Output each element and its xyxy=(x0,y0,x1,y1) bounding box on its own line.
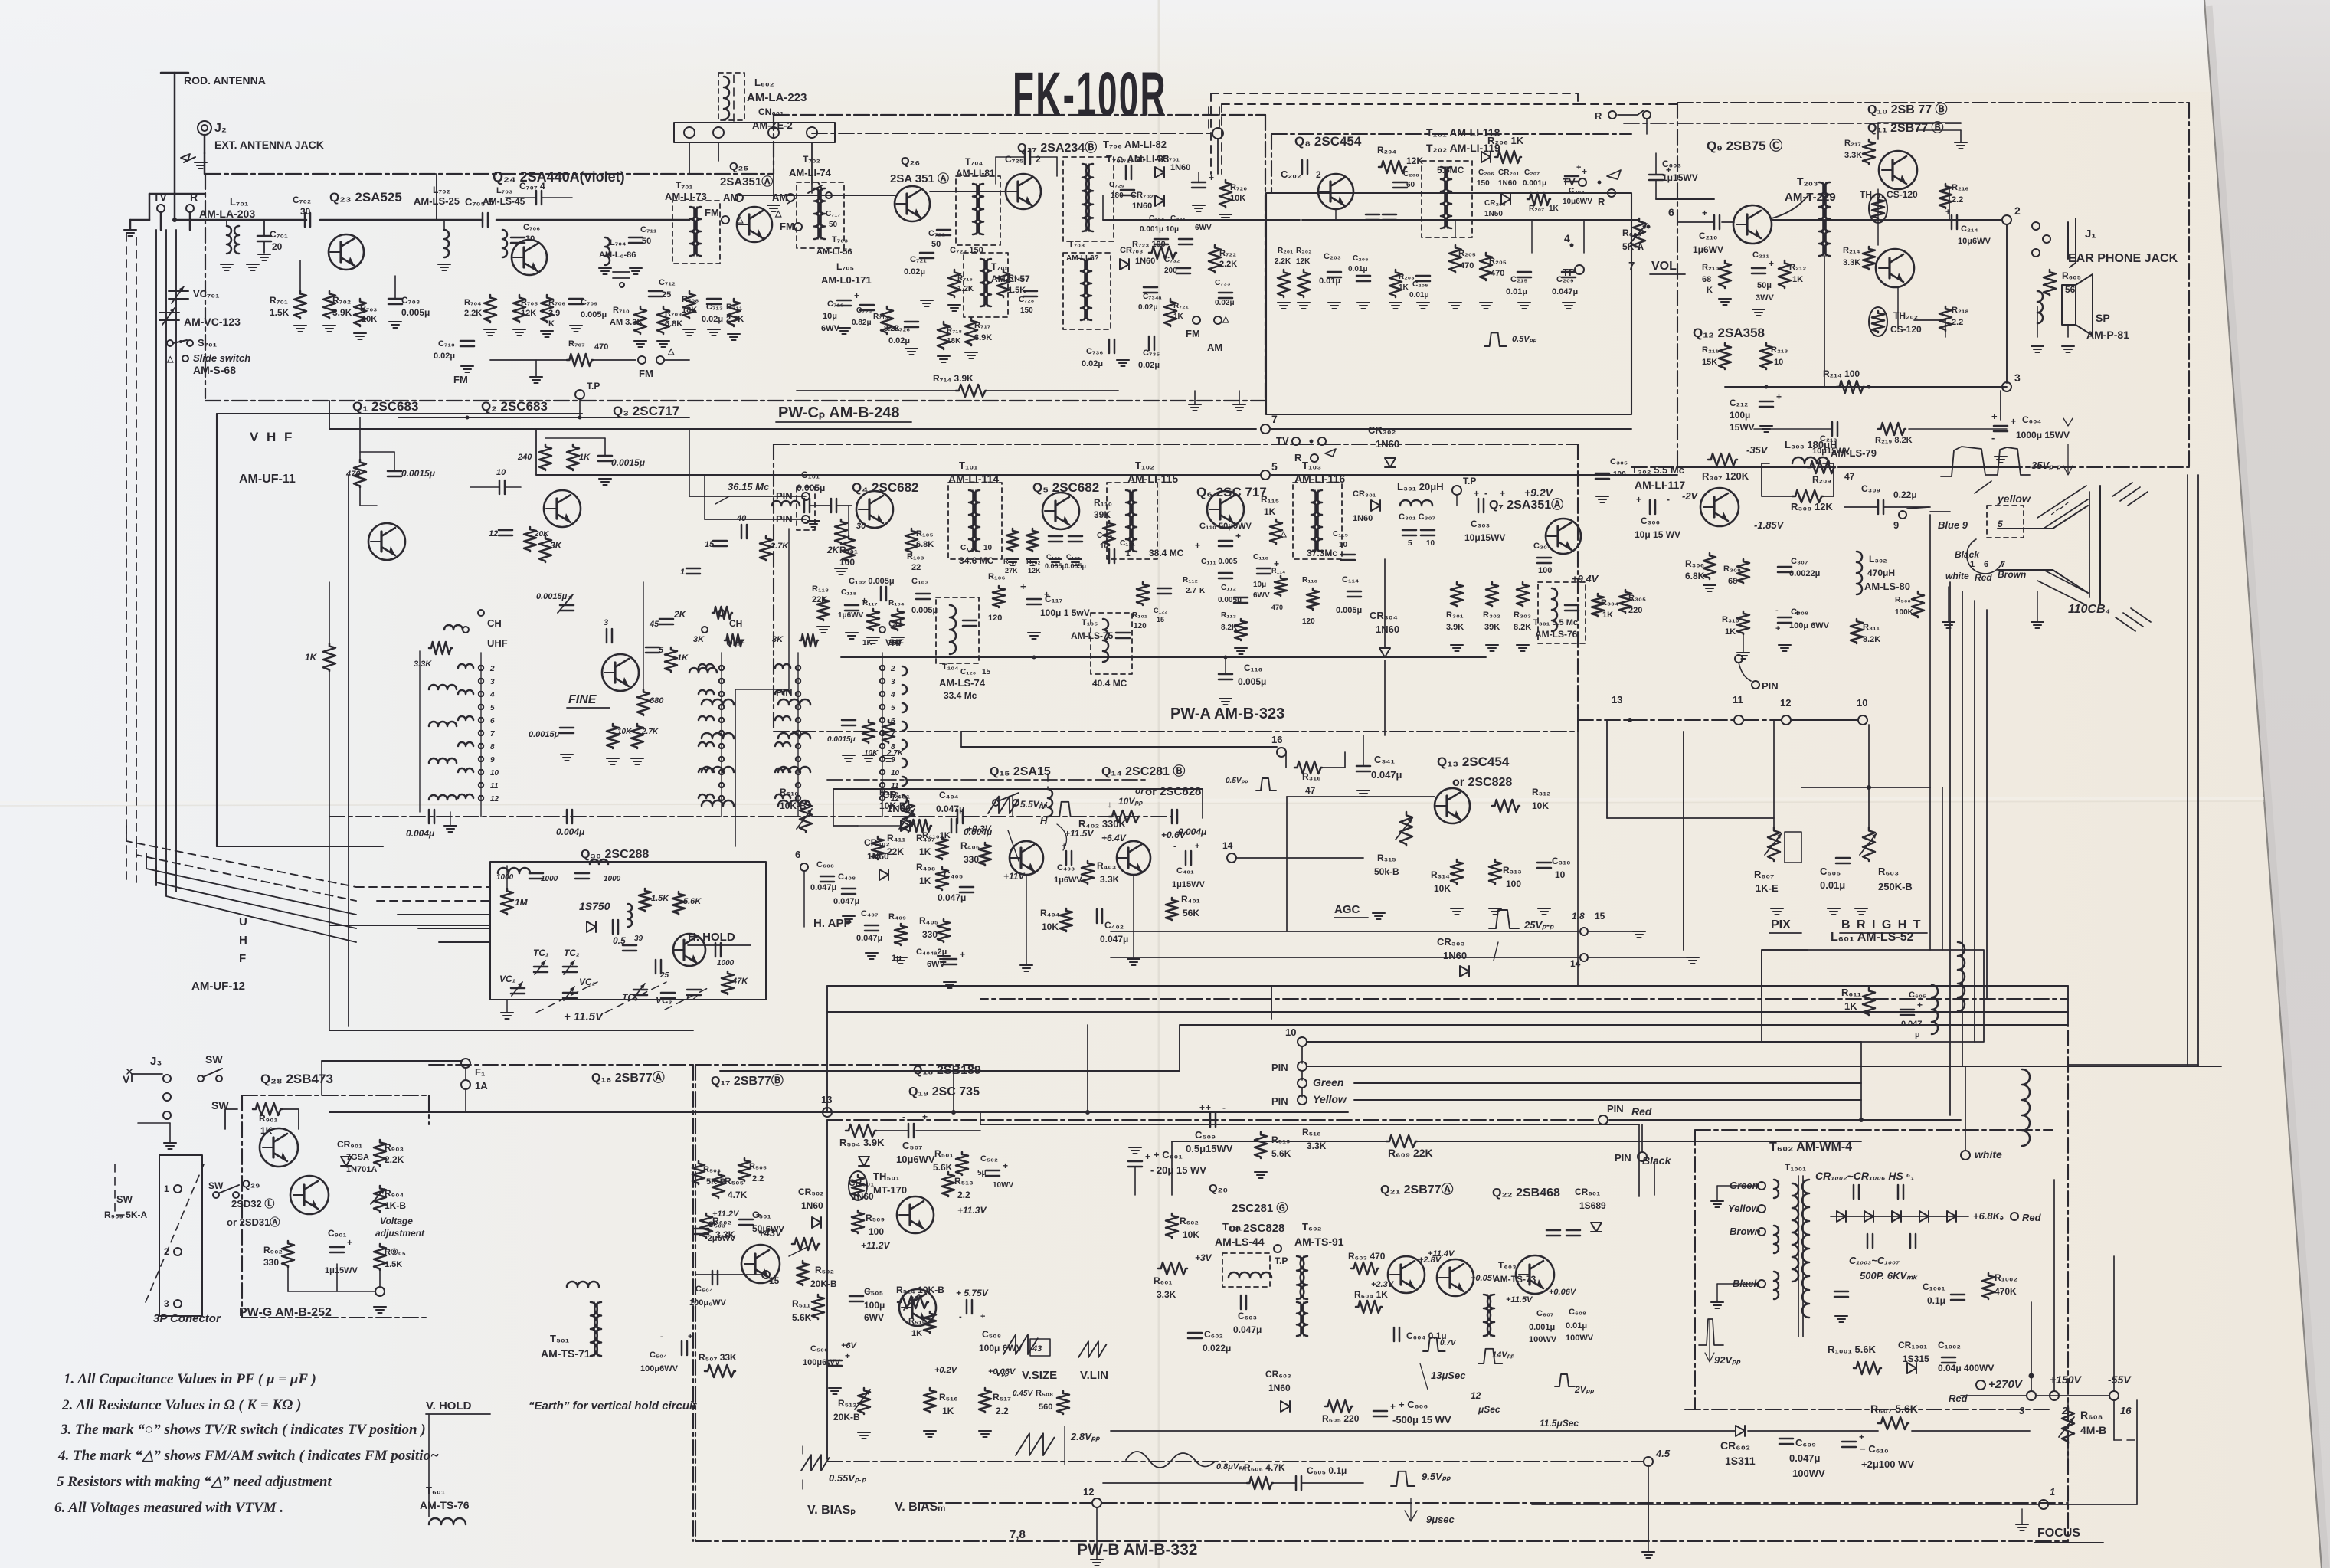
svg-text:5: 5 xyxy=(891,704,895,712)
svg-text:T.P: T.P xyxy=(1275,1255,1288,1266)
svg-text:0.0022μ: 0.0022μ xyxy=(1789,569,1820,578)
svg-text:VC₁: VC₁ xyxy=(499,974,515,984)
main wire FM front end xyxy=(175,219,306,221)
svg-text:3: 3 xyxy=(164,1298,169,1309)
svg-text:11.5μSec: 11.5μSec xyxy=(1540,1418,1579,1429)
capacitor C722 xyxy=(937,230,951,235)
svg-text:16: 16 xyxy=(1271,734,1282,745)
svg-text:T₆₀₂: T₆₀₂ xyxy=(1302,1221,1322,1232)
svg-text:0.047μ: 0.047μ xyxy=(936,804,964,814)
svg-text:L₃₀₁ 20μH: L₃₀₁ 20μH xyxy=(1397,481,1444,493)
svg-text:0.01μ: 0.01μ xyxy=(1348,265,1368,273)
svg-text:0.005μ: 0.005μ xyxy=(1336,606,1362,615)
resistor R310 xyxy=(1737,611,1749,634)
ground J2 xyxy=(195,162,207,169)
resistor R511 xyxy=(812,1295,824,1319)
svg-text:15: 15 xyxy=(1157,616,1164,624)
svg-text:R₁₁₅: R₁₁₅ xyxy=(1261,494,1279,505)
svg-text:C₃₀₄: C₃₀₄ xyxy=(1533,542,1551,551)
transistor Q8 xyxy=(1318,174,1353,209)
svg-text:AM: AM xyxy=(772,191,787,203)
wire bus nest A xyxy=(1271,985,2068,987)
svg-text:C₁₁₄: C₁₁₄ xyxy=(1342,575,1359,584)
resistor R308 xyxy=(1792,490,1823,502)
svg-text:R₂₁₂: R₂₁₂ xyxy=(1789,263,1806,272)
node 3 xyxy=(2002,382,2011,391)
svg-text:20: 20 xyxy=(272,241,283,252)
3P connector box xyxy=(159,1155,202,1316)
wire Q13 bias rail xyxy=(1287,796,1435,797)
node R TP top xyxy=(1608,111,1616,119)
svg-text:1μ15WV: 1μ15WV xyxy=(1662,172,1698,183)
wire right of sync down xyxy=(1202,789,1203,818)
svg-text:15K: 15K xyxy=(1702,358,1717,367)
svg-text:C₇₃₄ₐ: C₇₃₄ₐ xyxy=(1143,293,1162,301)
transistor Q23 xyxy=(329,234,364,270)
resistor 470 cap 0.0015 xyxy=(354,460,366,487)
svg-text:12: 12 xyxy=(1083,1486,1094,1498)
svg-text:C₇₀₉: C₇₀₉ xyxy=(581,298,597,307)
earphone jack xyxy=(2032,222,2040,230)
svg-text:40.4 MC: 40.4 MC xyxy=(1092,678,1127,689)
Q3 collector caps xyxy=(842,720,856,725)
svg-text:1K-E: 1K-E xyxy=(1756,882,1779,894)
svg-text:Red: Red xyxy=(2022,1212,2042,1223)
svg-text:0.0015μ: 0.0015μ xyxy=(536,592,568,601)
cap C505 xyxy=(849,1296,863,1301)
svg-text:R₆₁₁: R₆₁₁ xyxy=(1841,987,1861,998)
svg-text:R₆₀₈: R₆₀₈ xyxy=(2080,1409,2103,1421)
svg-text:100μ6WV: 100μ6WV xyxy=(640,1364,679,1373)
resistor R316 xyxy=(1294,761,1322,774)
svg-text:U: U xyxy=(239,915,247,928)
svg-text:C₃₀₁ C₃₀₇: C₃₀₁ C₃₀₇ xyxy=(1399,512,1435,522)
svg-text:100: 100 xyxy=(839,557,855,568)
wire IF block to sync long verticals xyxy=(953,1065,954,1112)
svg-text:470K: 470K xyxy=(1995,1286,2017,1297)
svg-text:0.02μ: 0.02μ xyxy=(1138,361,1160,370)
svg-text:C₂₁₂: C₂₁₂ xyxy=(1730,398,1748,408)
svg-text:Q₁₇ 2SB77Ⓑ: Q₁₇ 2SB77Ⓑ xyxy=(711,1073,784,1088)
svg-text:+: + xyxy=(1062,842,1066,851)
svg-text:35Vₚ-ₚ: 35Vₚ-ₚ xyxy=(2031,460,2061,471)
svg-text:L₇₀₁: L₇₀₁ xyxy=(230,196,248,208)
node 16 wire xyxy=(1277,748,1286,757)
svg-text:C₆₀₈: C₆₀₈ xyxy=(816,860,834,869)
dashed UHF link xyxy=(536,982,597,1013)
resistor R306 xyxy=(1703,553,1716,579)
wire nest right verticals xyxy=(1860,1042,1862,1120)
svg-text:T.P: T.P xyxy=(1463,476,1476,486)
svg-text:T₁₀₅: T₁₀₅ xyxy=(1082,618,1098,627)
T301 5.5Mc xyxy=(1538,582,1586,643)
svg-text:10μ15WV: 10μ15WV xyxy=(1464,532,1505,543)
svg-text:AM-LI-115: AM-LI-115 xyxy=(1127,473,1178,485)
svg-text:1K: 1K xyxy=(1399,283,1409,292)
T105 AM-LS-75 xyxy=(1091,613,1132,674)
svg-text:R₅₀₃: R₅₀₃ xyxy=(703,1165,721,1174)
svg-text:R₁₀₆: R₁₀₆ xyxy=(988,572,1005,581)
svg-text:8.2K: 8.2K xyxy=(1514,623,1531,632)
resistor R604 xyxy=(1356,1301,1382,1313)
svg-text:2.2: 2.2 xyxy=(1952,195,1963,205)
svg-text:9: 9 xyxy=(1893,519,1899,531)
thermistor TH201 xyxy=(1869,194,1887,223)
svg-text:-55V: -55V xyxy=(2108,1373,2132,1386)
cap C803 xyxy=(1649,175,1663,180)
transistor Q24 xyxy=(512,240,547,275)
svg-text:0.01μ: 0.01μ xyxy=(1319,277,1340,286)
svg-text:R₅₀₈: R₅₀₈ xyxy=(1036,1389,1053,1398)
svg-text:8.2K: 8.2K xyxy=(1863,635,1880,644)
block border VHF tuner xyxy=(216,414,218,846)
svg-text:+11.5V: +11.5V xyxy=(1506,1295,1533,1304)
cap 0.0015 gnd 10K 2.7K xyxy=(560,728,574,733)
coil L802 bar antenna xyxy=(718,73,744,120)
thermistor TH202 xyxy=(1869,307,1887,336)
svg-text:0.004μ: 0.004μ xyxy=(556,827,585,837)
svg-text:560: 560 xyxy=(1039,1403,1052,1412)
svg-text:L₇₀₂: L₇₀₂ xyxy=(433,185,450,195)
svg-text:V H F: V H F xyxy=(250,430,294,444)
svg-text:− C₆₁₀: − C₆₁₀ xyxy=(1860,1443,1889,1455)
svg-text:R₉₀₁: R₉₀₁ xyxy=(259,1113,277,1124)
svg-text:1N60: 1N60 xyxy=(1443,950,1467,961)
svg-text:1K: 1K xyxy=(919,876,931,886)
svg-text:L₇₀₄: L₇₀₄ xyxy=(610,238,626,247)
svg-text:0.001μ: 0.001μ xyxy=(1529,1323,1555,1332)
svg-text:0.02μ: 0.02μ xyxy=(1215,299,1235,307)
resistor R710 xyxy=(634,306,646,334)
svg-text:R₇₂₀: R₇₂₀ xyxy=(1230,183,1247,192)
svg-text:Q₁₀ 2SB 77 Ⓑ: Q₁₀ 2SB 77 Ⓑ xyxy=(1867,102,1948,116)
svg-text:+11V: +11V xyxy=(1003,871,1025,882)
svg-text:L₇₀₅: L₇₀₅ xyxy=(836,261,854,272)
svg-text:-500μ 15 WV: -500μ 15 WV xyxy=(1392,1414,1451,1426)
resistor R902 xyxy=(282,1241,294,1267)
svg-text:R₆₀₉: R₆₀₉ xyxy=(1622,228,1641,238)
transistor Q10 xyxy=(1879,151,1917,189)
svg-text:K: K xyxy=(1199,587,1206,595)
svg-text:C₃₄₁: C₃₄₁ xyxy=(1374,754,1395,765)
svg-text:+0.06V: +0.06V xyxy=(1549,1288,1577,1297)
svg-text:FK-100R: FK-100R xyxy=(1013,60,1167,129)
svg-text:330: 330 xyxy=(922,929,938,940)
svg-text:C₅₀₄: C₅₀₄ xyxy=(650,1350,667,1360)
svg-text:R₅₁₁: R₅₁₁ xyxy=(792,1298,810,1309)
block border audio chain xyxy=(1677,103,1678,467)
svg-text:2.7K: 2.7K xyxy=(886,749,904,758)
svg-text:14: 14 xyxy=(1570,958,1581,969)
svg-text:R₂₁₉ 8.2K: R₂₁₉ 8.2K xyxy=(1875,436,1913,445)
svg-text:CR₂₀₃: CR₂₀₃ xyxy=(1484,199,1506,208)
svg-text:38.4 MC: 38.4 MC xyxy=(1149,548,1184,558)
diode CR301 xyxy=(1371,500,1380,511)
svg-text:1S750: 1S750 xyxy=(579,900,610,912)
cap C504 xyxy=(682,1341,687,1355)
svg-text:1N60: 1N60 xyxy=(1498,179,1517,188)
svg-text:R₆₁₀: R₆₁₀ xyxy=(780,787,799,797)
svg-text:4: 4 xyxy=(489,691,495,699)
svg-text:5: 5 xyxy=(490,704,495,712)
svg-text:R₅₀₂: R₅₀₂ xyxy=(815,1265,834,1275)
svg-text:Q₃₀ 2SC288: Q₃₀ 2SC288 xyxy=(581,848,649,861)
svg-text:PW-Cₚ AM-B-248: PW-Cₚ AM-B-248 xyxy=(778,404,900,421)
inductor ladder col1 xyxy=(429,685,457,689)
svg-text:R₃₀₄: R₃₀₄ xyxy=(1601,598,1618,607)
resistor 680 xyxy=(637,689,650,715)
transistor Q21 xyxy=(1437,1259,1474,1296)
svg-text:100μ 1 5wV: 100μ 1 5wV xyxy=(1040,607,1090,618)
wire top jog to L802 xyxy=(436,174,437,220)
block border sound IF xyxy=(1266,193,1631,414)
thermistor TH501 xyxy=(849,1171,867,1200)
svg-text:10Vₚₚ: 10Vₚₚ xyxy=(1118,796,1143,807)
svg-text:R₇₁₃: R₇₁₃ xyxy=(873,313,888,321)
svg-text:1μ15WV: 1μ15WV xyxy=(1172,880,1205,889)
resistor R719 xyxy=(997,270,1010,297)
svg-text:-: - xyxy=(1775,606,1779,615)
svg-text:CR₅₀₂: CR₅₀₂ xyxy=(798,1187,824,1197)
svg-text:H: H xyxy=(1040,815,1048,827)
svg-text:C₇₀₆: C₇₀₆ xyxy=(523,223,540,232)
svg-text:C₂₀₈: C₂₀₈ xyxy=(1569,187,1585,195)
svg-text:C₅₀₅: C₅₀₅ xyxy=(1820,866,1841,877)
svg-text:0.047μ: 0.047μ xyxy=(1100,934,1128,944)
svg-text:1.2K: 1.2K xyxy=(957,285,974,293)
wire 13 bus xyxy=(383,1111,1348,1113)
svg-text:+: + xyxy=(1859,1432,1864,1442)
svg-text:150: 150 xyxy=(1020,306,1033,315)
svg-text:C₁₀₀₃~C₁₀₀₇: C₁₀₀₃~C₁₀₀₇ xyxy=(1849,1255,1900,1266)
svg-text:+: + xyxy=(922,1111,928,1122)
svg-text:C₃₁₀: C₃₁₀ xyxy=(1552,856,1571,866)
resistor R517 xyxy=(979,1388,991,1413)
svg-text:12K: 12K xyxy=(521,309,536,318)
svg-text:C₇₁₂: C₇₁₂ xyxy=(659,278,676,287)
svg-text:+9.4V: +9.4V xyxy=(1572,573,1599,584)
svg-text:AM-LI-56: AM-LI-56 xyxy=(816,247,852,257)
wire 7 bus xyxy=(329,428,1256,430)
svg-text:12: 12 xyxy=(490,795,499,804)
resistor R204 xyxy=(1379,161,1406,173)
svg-text:0.01μ: 0.01μ xyxy=(1409,291,1429,300)
svg-text:R₂₁₁: R₂₁₁ xyxy=(1702,345,1719,355)
svg-text:1000: 1000 xyxy=(717,959,735,967)
svg-text:SW: SW xyxy=(208,1180,224,1191)
svg-text:+: + xyxy=(1991,411,1998,422)
svg-text:330: 330 xyxy=(964,854,979,865)
cap C210 xyxy=(1714,215,1720,229)
resistor R309 xyxy=(1737,559,1749,584)
rod antenna xyxy=(174,73,176,220)
svg-text:Q₂₆: Q₂₆ xyxy=(901,155,920,168)
waveform 25Vpp xyxy=(1489,910,1519,928)
svg-text:3.3K: 3.3K xyxy=(1157,1289,1176,1300)
svg-text:240: 240 xyxy=(517,453,532,462)
svg-text:8: 8 xyxy=(490,743,495,751)
svg-text:0.005μ: 0.005μ xyxy=(911,606,938,615)
svg-text:470: 470 xyxy=(1271,604,1283,611)
svg-text:+: + xyxy=(1582,166,1587,177)
wire horizontal y1068 right xyxy=(1607,817,1774,819)
svg-text:C₁₀₅: C₁₀₅ xyxy=(960,544,977,552)
volume pot R809 xyxy=(1633,218,1645,249)
svg-text:+6V: +6V xyxy=(841,1341,858,1350)
svg-text:1: 1 xyxy=(680,568,685,577)
svg-text:9: 9 xyxy=(490,756,495,764)
svg-text:+: + xyxy=(1576,163,1581,172)
svg-text:13: 13 xyxy=(1612,694,1622,705)
cap C309 xyxy=(1878,500,1883,514)
svg-text:1K: 1K xyxy=(1264,506,1276,517)
svg-text:0.005μ: 0.005μ xyxy=(581,310,607,319)
svg-text:R₇₁₉: R₇₁₉ xyxy=(1008,273,1025,283)
svg-text:AM-LS-80: AM-LS-80 xyxy=(1864,581,1910,592)
cap C503 xyxy=(695,1229,708,1234)
svg-text:PIN: PIN xyxy=(1762,680,1779,692)
svg-text:4.7K: 4.7K xyxy=(728,1190,748,1200)
svg-text:7: 7 xyxy=(1271,413,1278,425)
svg-text:CR₃₀₃: CR₃₀₃ xyxy=(1437,936,1465,948)
svg-text:15: 15 xyxy=(1595,911,1605,921)
svg-text:EAR PHONE JACK: EAR PHONE JACK xyxy=(2068,252,2178,265)
svg-text:Yellow: Yellow xyxy=(1728,1203,1760,1214)
svg-text:1.5K: 1.5K xyxy=(270,307,290,318)
waveform 0.5Vpp near Q7 xyxy=(1484,332,1507,346)
transistor Q30 xyxy=(673,934,705,966)
svg-text:0.005μ: 0.005μ xyxy=(1238,676,1266,687)
resistor R805 xyxy=(2044,270,2056,296)
svg-text:AM 3.3K: AM 3.3K xyxy=(610,318,643,327)
svg-text:C₁₀₁: C₁₀₁ xyxy=(801,470,820,480)
cap C603 xyxy=(1241,1295,1246,1309)
+270V xyxy=(1976,1380,1985,1390)
svg-text:PIN: PIN xyxy=(1607,1103,1624,1115)
svg-text:6WV: 6WV xyxy=(821,324,840,333)
svg-text:0.047μ: 0.047μ xyxy=(856,934,882,943)
svg-text:C₆₀₉: C₆₀₉ xyxy=(1795,1437,1816,1449)
svg-text:1M: 1M xyxy=(515,897,529,908)
svg-text:FM: FM xyxy=(453,374,468,385)
svg-text:+270V: +270V xyxy=(1988,1378,2024,1391)
svg-text:0.01μ: 0.01μ xyxy=(1820,879,1845,891)
svg-text:7,8: 7,8 xyxy=(1010,1528,1026,1541)
svg-text:27K: 27K xyxy=(1005,567,1018,574)
svg-text:10: 10 xyxy=(490,769,499,777)
svg-text:Q₈ 2SC454: Q₈ 2SC454 xyxy=(1294,134,1362,149)
svg-text:H. APP: H. APP xyxy=(813,917,851,930)
wire x2520 to L801 xyxy=(1942,787,1943,950)
svg-text:14: 14 xyxy=(1222,840,1233,851)
grounds sound IF xyxy=(1278,303,1290,309)
wire PIN feed left of IF xyxy=(689,496,806,497)
svg-text:C₇₂₈: C₇₂₈ xyxy=(1019,296,1035,304)
svg-text:+: + xyxy=(1769,258,1774,269)
transistor Q22 xyxy=(1516,1255,1554,1294)
svg-text:△: △ xyxy=(1280,530,1287,538)
svg-text:47: 47 xyxy=(1305,785,1316,796)
svg-text:+: + xyxy=(1776,391,1782,402)
svg-text:C₁₁₅: C₁₁₅ xyxy=(1333,530,1348,538)
transformer T704 xyxy=(956,176,1000,245)
svg-text:C₇₂₂: C₇₂₂ xyxy=(928,229,945,238)
svg-text:1K: 1K xyxy=(1844,1000,1857,1012)
svg-text:C₆₀₂: C₆₀₂ xyxy=(1204,1329,1223,1340)
wire horizontal block frame xyxy=(980,1124,1639,1125)
svg-text:56K: 56K xyxy=(1183,908,1199,918)
svg-text:AM-S-68: AM-S-68 xyxy=(193,364,236,376)
wire audio mid xyxy=(1725,386,2007,388)
svg-text:FOCUS: FOCUS xyxy=(2037,1527,2080,1540)
svg-text:5: 5 xyxy=(1998,519,2003,529)
svg-text:“Earth” for vertical hold cir: “Earth” for vertical hold circuit xyxy=(529,1399,697,1413)
svg-text:TH₂₀₁ CS-120: TH₂₀₁ CS-120 xyxy=(1860,189,1918,200)
svg-text:1N60: 1N60 xyxy=(1376,624,1399,635)
coil L302 xyxy=(1857,552,1862,594)
cap C804 xyxy=(1994,426,2008,431)
svg-text:6WV: 6WV xyxy=(864,1312,884,1323)
transistor Q9 xyxy=(1733,205,1772,244)
wire bus bottom left rising xyxy=(429,1064,693,1066)
svg-text:5: 5 xyxy=(1271,460,1278,473)
svg-text:0.02μ: 0.02μ xyxy=(434,352,455,361)
svg-text:0.0015μ: 0.0015μ xyxy=(611,457,646,468)
svg-text:△: △ xyxy=(1222,315,1229,324)
caps pair xyxy=(1366,214,1379,220)
resistor R504 xyxy=(846,1124,876,1137)
capacitor C202 xyxy=(1302,160,1307,174)
svg-text:1: 1 xyxy=(2050,1486,2055,1498)
bias R301 R302 R303 xyxy=(1451,582,1463,607)
pot R315 xyxy=(1400,812,1412,846)
svg-text:Brown: Brown xyxy=(1998,569,2026,580)
svg-text:R₇₀₈: R₇₀₈ xyxy=(682,295,699,304)
resistor R705 xyxy=(513,295,525,322)
wire yellow diagonal to CRT xyxy=(1907,507,1929,509)
svg-text:AM-L0-171: AM-L0-171 xyxy=(821,274,872,286)
svg-text:3: 3 xyxy=(891,678,895,686)
svg-text:TV: TV xyxy=(1563,176,1576,188)
svg-text:AM-LA-203: AM-LA-203 xyxy=(199,208,255,220)
svg-text:0.5Vₚₚ: 0.5Vₚₚ xyxy=(1226,777,1248,785)
svg-text:3.9K: 3.9K xyxy=(974,333,992,342)
svg-text:C₇₃₆: C₇₃₆ xyxy=(1086,347,1103,356)
svg-text:1000: 1000 xyxy=(496,873,514,882)
switch near fine xyxy=(993,800,999,806)
cap 12 and 20K xyxy=(499,530,512,535)
svg-text:6: 6 xyxy=(1984,560,1988,569)
svg-text:470: 470 xyxy=(345,470,361,479)
svg-text:T₁₀₁: T₁₀₁ xyxy=(959,460,978,471)
svg-text:C₃₀₈: C₃₀₈ xyxy=(1791,607,1808,617)
resistor R905 xyxy=(374,1244,386,1270)
svg-text:+0.2V: +0.2V xyxy=(934,1366,958,1375)
svg-text:TC₁: TC₁ xyxy=(533,948,548,958)
svg-text:3. The mark “○” shows TV/R swi: 3. The mark “○” shows TV/R switch ( indi… xyxy=(60,1422,426,1438)
svg-text:-2V: -2V xyxy=(1682,490,1699,502)
transistor Q2 xyxy=(544,490,581,527)
svg-text:36.15 Mc: 36.15 Mc xyxy=(728,481,770,493)
svg-text:9.5Vₚₚ: 9.5Vₚₚ xyxy=(1422,1471,1451,1482)
svg-text:CH: CH xyxy=(729,618,742,629)
svg-text:C₇₁₁: C₇₁₁ xyxy=(640,225,657,234)
svg-text:Q₂ 2SC683: Q₂ 2SC683 xyxy=(481,399,548,414)
svg-text:2.7K: 2.7K xyxy=(770,542,789,551)
svg-text:1K: 1K xyxy=(1173,313,1184,321)
svg-text:470: 470 xyxy=(1491,269,1504,278)
cap C402 xyxy=(1097,909,1102,923)
